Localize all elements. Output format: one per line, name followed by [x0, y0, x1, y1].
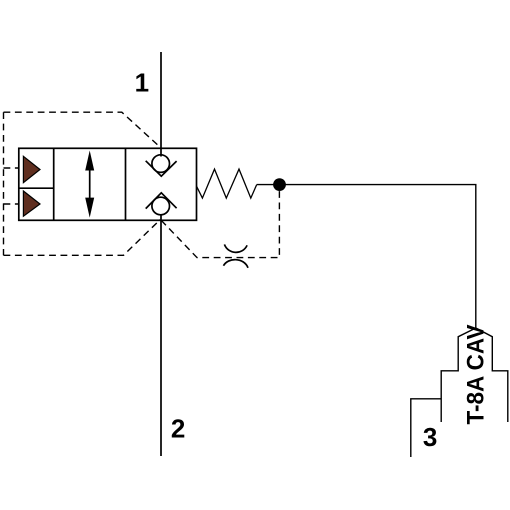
pilot cell divider	[19, 187, 54, 189]
pilot dashed stub lower	[4, 203, 19, 205]
check valve lower seat	[146, 193, 177, 209]
spring	[197, 169, 257, 198]
pilot triangle lower	[23, 191, 40, 216]
valve body outline	[19, 148, 197, 220]
check valve upper seat	[146, 161, 177, 176]
check valve upper ball	[152, 155, 170, 173]
pilot dashed top run	[4, 112, 162, 148]
port 2 line	[160, 214, 162, 456]
pilot dashed bottom run	[4, 220, 161, 256]
pilot dashed right run	[161, 190, 279, 258]
svg-text:2: 2	[171, 414, 185, 444]
port 1 line	[160, 52, 162, 157]
svg-text:1: 1	[135, 67, 149, 97]
pilot triangle upper	[23, 156, 40, 182]
wire node to cavity	[257, 185, 476, 328]
cavity outline T-8A	[441, 328, 476, 422]
svg-text:T-8A CAV: T-8A CAV	[463, 325, 490, 425]
pilot dashed left vertical	[3, 112, 5, 255]
orifice lower arc	[224, 260, 249, 268]
double arrow	[89, 167, 91, 202]
body divider right	[125, 148, 127, 220]
body divider left	[53, 148, 55, 220]
orifice upper arc	[224, 244, 247, 252]
svg-text:3: 3	[423, 422, 437, 452]
junction node	[273, 178, 286, 191]
pilot dashed stub upper	[4, 167, 19, 169]
check valve lower ball	[152, 197, 170, 215]
